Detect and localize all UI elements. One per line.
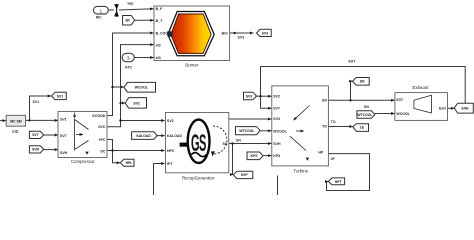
svg-text:HPC: HPC: [167, 149, 175, 153]
svg-text:Compressor: Compressor: [71, 159, 95, 164]
svg-text:KP3: KP3: [273, 154, 280, 158]
svg-text:Exhaust: Exhaust: [412, 85, 429, 90]
svg-text:SV2: SV2: [133, 102, 140, 106]
svg-text:3: 3: [127, 56, 130, 61]
svg-text:SVH: SVH: [60, 151, 68, 155]
svg-text:B/O: B/O: [222, 31, 229, 35]
svg-text:SV3: SV3: [238, 36, 245, 40]
svg-text:WCOOL: WCOOL: [273, 130, 287, 134]
svg-text:SV7: SV7: [60, 134, 67, 138]
svg-text:KALOAD: KALOAD: [136, 134, 151, 138]
svg-text:EXH: EXH: [462, 107, 470, 111]
svg-text:EXT: EXT: [349, 59, 357, 63]
svg-text:SN: SN: [360, 80, 365, 84]
svg-text:Turbine: Turbine: [293, 168, 308, 173]
svg-text:SV2: SV2: [273, 94, 280, 98]
svg-text:SV1: SV1: [57, 94, 64, 98]
svg-text:B_COO: B_COO: [156, 31, 169, 35]
svg-text:TO: TO: [322, 125, 327, 129]
svg-text:4F: 4F: [331, 157, 336, 161]
svg-text:WCOOL: WCOOL: [135, 86, 148, 90]
svg-text:SVH: SVH: [273, 142, 281, 146]
svg-text:ExO: ExO: [439, 107, 446, 111]
svg-text:sf3: sf3: [156, 56, 161, 60]
svg-text:B_T: B_T: [156, 19, 163, 23]
svg-text:+PC: +PC: [98, 138, 105, 142]
svg-text:SV7: SV7: [273, 107, 280, 111]
svg-text:SN: SN: [223, 142, 228, 146]
svg-text:ATC: ATC: [125, 66, 133, 70]
svg-text:SN: SN: [364, 105, 369, 109]
svg-text:sf2: sf2: [156, 44, 161, 48]
svg-text:WCOOL: WCOOL: [396, 112, 410, 116]
svg-text:KALOAD: KALOAD: [167, 134, 182, 138]
svg-text:TE: TE: [360, 126, 365, 130]
svg-text:w/p: w/p: [127, 2, 135, 6]
svg-text:IPT: IPT: [167, 162, 173, 166]
svg-text:GS: GS: [191, 129, 206, 156]
svg-text:INC: INC: [96, 16, 103, 20]
svg-text:HPL: HPL: [126, 161, 133, 165]
svg-text:KPS: KPS: [251, 154, 259, 158]
svg-text:WTCOOL: WTCOOL: [239, 129, 254, 133]
svg-text:DC: DC: [100, 150, 106, 154]
svg-text:SV2: SV2: [167, 119, 174, 123]
svg-text:RecupGenerator: RecupGenerator: [182, 175, 215, 180]
svg-text:SV1: SV1: [33, 100, 40, 104]
svg-text:KCGOD: KCGOD: [92, 114, 106, 118]
svg-text:SV7: SV7: [32, 133, 39, 137]
svg-text:SVC: SVC: [98, 125, 106, 129]
svg-text:ME: ME: [12, 129, 19, 134]
svg-text:EXT: EXT: [396, 98, 404, 102]
svg-text:HPT: HPT: [335, 180, 343, 184]
svg-text:BV: BV: [125, 19, 130, 23]
svg-text:TO: TO: [331, 120, 336, 124]
svg-text:SV3: SV3: [246, 94, 253, 98]
svg-text:B_F: B_F: [156, 7, 163, 11]
svg-text:Burner: Burner: [185, 63, 199, 68]
svg-text:SV3: SV3: [273, 117, 280, 121]
svg-text:WTCOOL: WTCOOL: [357, 113, 372, 117]
svg-text:HP: HP: [318, 151, 324, 155]
svg-text:SVR: SVR: [32, 148, 40, 152]
svg-text:MC SM: MC SM: [10, 119, 21, 123]
svg-text:SVP: SVP: [241, 173, 249, 177]
svg-text:SV1: SV1: [60, 117, 67, 121]
svg-text:SN: SN: [322, 99, 327, 103]
svg-text:SV3: SV3: [262, 31, 269, 35]
svg-text:SN: SN: [236, 139, 241, 143]
